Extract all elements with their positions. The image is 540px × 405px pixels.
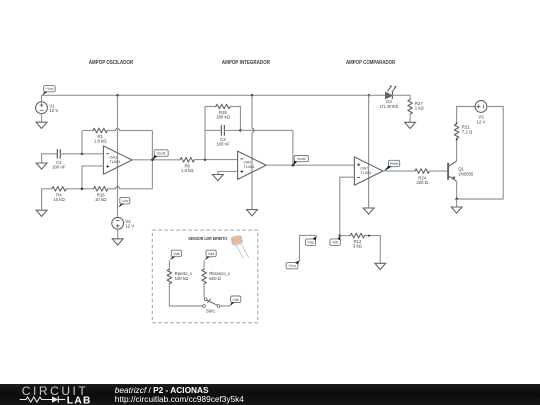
- node Vdb junction: [339, 234, 342, 237]
- voltage source V2: [112, 217, 124, 229]
- svg-text:10 kΩ: 10 kΩ: [95, 197, 107, 202]
- resistor R6 1.8 k: [180, 158, 194, 163]
- svg-text:SW1: SW1: [206, 309, 216, 314]
- resistor R1 1.8 k: [93, 128, 107, 133]
- flag Vout2: [294, 156, 308, 162]
- wire integrator feedback left vertical: [204, 107, 206, 160]
- wire R1 top left segment: [82, 130, 93, 132]
- svg-text:180 kΩ: 180 kΩ: [216, 115, 231, 120]
- wire R16 right with hop over supply: [108, 188, 116, 190]
- op-amp OA1 TL081: [103, 146, 132, 174]
- svg-text:AMPOP INTEGRADOR: AMPOP INTEGRADOR: [222, 60, 271, 66]
- resistor Rpreto_x 100 k: [167, 269, 172, 283]
- op-amp OA7 TL081: [354, 157, 383, 185]
- ground at C2: [36, 163, 47, 169]
- svg-text:TL081: TL081: [109, 159, 120, 164]
- svg-text:1.8 kΩ: 1.8 kΩ: [181, 168, 194, 173]
- wire R21 top to V3: [457, 107, 476, 123]
- svg-text:100 nF: 100 nF: [216, 142, 230, 147]
- wire switch to Vdb flag: [220, 305, 230, 307]
- wire +Vcc to Vda tie: [300, 235, 317, 260]
- svg-text:12 V: 12 V: [477, 119, 486, 124]
- svg-text:LAB: LAB: [67, 395, 92, 405]
- ground at R4: [36, 210, 47, 216]
- wire OA7 inverting input: [340, 177, 355, 235]
- svg-text:3 kΩ: 3 kΩ: [353, 244, 363, 249]
- svg-text:100 kΩ: 100 kΩ: [175, 276, 190, 281]
- node rail-OA2 supply junction: [251, 94, 254, 97]
- logo resistor-diode squiggle: [20, 397, 52, 402]
- resistor R16 10 k: [94, 187, 108, 192]
- wire V1 to ground: [41, 114, 43, 123]
- svg-text:1.8 kΩ: 1.8 kΩ: [94, 139, 107, 144]
- svg-text:12 V: 12 V: [125, 224, 134, 229]
- svg-text:600 Ω: 600 Ω: [209, 276, 221, 281]
- resistor R27 1 k: [408, 100, 413, 114]
- svg-text:Vdb: Vdb: [232, 298, 238, 302]
- capacitor C2 100 nF: [57, 149, 60, 159]
- transistor Q1 2N3055: [447, 163, 449, 180]
- svg-text:1 kΩ: 1 kΩ: [415, 105, 425, 110]
- flag Vda left branch: [171, 250, 181, 257]
- flag +Vcc tie: [286, 263, 298, 269]
- svg-text:Vda: Vda: [307, 241, 313, 245]
- svg-text:Vdb: Vdb: [332, 241, 338, 245]
- node divider junction: [81, 188, 84, 191]
- svg-text:TL081: TL081: [360, 170, 371, 175]
- LDR photograph: [231, 235, 243, 246]
- wire Vda to Rbranco: [203, 260, 205, 269]
- ground at OA2 + input: [213, 175, 224, 181]
- ground under OA7: [363, 208, 374, 214]
- resistor R21 7.2 ohm: [454, 124, 459, 138]
- resistor R12 3 k: [350, 233, 364, 238]
- wire R26 left segment: [205, 106, 216, 108]
- op-amp OA2 TL081: [238, 151, 267, 179]
- node feedback right junction: [239, 129, 242, 132]
- svg-text:100 nF: 100 nF: [52, 165, 66, 170]
- svg-text:7.2 Ω: 7.2 Ω: [462, 129, 473, 134]
- ground under V1: [36, 122, 47, 128]
- ground under V2: [112, 239, 123, 245]
- wire R1 top right segment with hop over supply: [107, 130, 115, 132]
- svg-text:PWM: PWM: [390, 162, 399, 166]
- node integrator input junction: [204, 158, 207, 161]
- wire R27 to ground: [409, 114, 411, 122]
- wire OA1 noninverting input: [82, 166, 103, 189]
- capacitor C3 100 nF: [221, 125, 224, 136]
- LED D3 LTL-307EE: [385, 92, 392, 99]
- svg-text:LTL-307EE: LTL-307EE: [380, 104, 399, 109]
- wire feedback to output, hop over supply: [241, 129, 253, 131]
- ground under OA2: [247, 210, 258, 216]
- dashed sensor enclosure box: [152, 230, 257, 323]
- wire V1 to rail: [41, 95, 43, 102]
- wire R26 right segment: [230, 107, 240, 131]
- wire +Vcc top rail: [42, 94, 370, 96]
- svg-text:2N3055: 2N3055: [458, 171, 474, 176]
- svg-text:http://circuitlab.com/cc989cef: http://circuitlab.com/cc989cef3y5k4: [115, 394, 245, 404]
- svg-text:12 V: 12 V: [49, 108, 58, 113]
- ground under R12: [375, 263, 386, 269]
- svg-text:TL081: TL081: [244, 164, 255, 169]
- wire rail to LED: [369, 94, 385, 96]
- flag Vdb at comparator: [330, 239, 341, 246]
- svg-text:Vout2: Vout2: [297, 157, 306, 161]
- resistor R4 10 k: [52, 187, 66, 192]
- wire R1 left vertical: [81, 131, 83, 154]
- node R12 terminal: [368, 235, 370, 237]
- switch SW1: [204, 298, 207, 301]
- node rail-OA7 supply junction: [368, 94, 371, 97]
- wire OA2 positive supply with hop over feedback: [251, 95, 253, 128]
- node R21 bottom terminal: [456, 138, 458, 140]
- wire feedback down to Vout2: [292, 130, 294, 165]
- wire LED to R27: [392, 95, 410, 99]
- node R21 top terminal: [456, 122, 458, 124]
- wire Q1 collector to R21: [456, 139, 458, 161]
- flag PWM: [389, 160, 400, 166]
- svg-text:+Vcc: +Vcc: [288, 264, 296, 268]
- node emitter/ground junction: [455, 198, 458, 201]
- wire V2 to ground: [117, 229, 119, 239]
- wire R4 to R16: [66, 188, 93, 190]
- svg-text:Vout1: Vout1: [157, 152, 166, 156]
- wire OA2 output: [266, 164, 354, 166]
- ground under Q1 emitter: [451, 207, 462, 213]
- wire OA2 noninverting input to ground: [218, 171, 238, 174]
- svg-text:-Vcc: -Vcc: [121, 199, 128, 203]
- resistor R24 220 ohm: [415, 169, 429, 174]
- svg-text:AMPOP COMPARADOR: AMPOP COMPARADOR: [346, 60, 396, 66]
- wire OA7 supply vertical: [368, 95, 370, 208]
- svg-text:+Vcc: +Vcc: [45, 87, 53, 91]
- voltage source V3: [475, 101, 487, 113]
- flag Vda tie: [305, 239, 315, 246]
- wire OA7 output to R24: [383, 170, 415, 172]
- svg-text:10 kΩ: 10 kΩ: [53, 197, 65, 202]
- wire Q1 emitter down: [456, 181, 458, 199]
- wire C3 right segment: [224, 129, 240, 131]
- resistor Rbranco_x 600 ohm: [202, 269, 207, 283]
- flag Vda right branch: [206, 250, 216, 257]
- wire R6 to OA2: [194, 159, 237, 161]
- node Vout2: [292, 164, 295, 167]
- wire C3 left segment: [205, 129, 221, 131]
- LDR leads: [236, 244, 249, 258]
- flag +Vcc (V1): [44, 86, 56, 92]
- wire C2 to OA1 inverting input: [60, 153, 103, 155]
- wire OA1 output: [132, 159, 180, 161]
- wire V3 right loop down: [457, 107, 504, 200]
- wire R24 to Q1 base: [429, 170, 448, 172]
- svg-text:Vda: Vda: [173, 252, 179, 256]
- wire C2 left to ground: [42, 154, 58, 163]
- svg-text:AMPOP OSCILADOR: AMPOP OSCILADOR: [89, 60, 134, 66]
- wire Vdb to R12: [340, 235, 350, 237]
- ground under R27: [405, 122, 416, 128]
- wire Vda to Rpreto: [168, 260, 170, 269]
- flag -Vcc: [120, 197, 130, 204]
- wire R4 left: [42, 189, 52, 210]
- wire R12 to ground corner: [365, 236, 381, 264]
- resistor R26 180 k: [216, 104, 230, 109]
- wire Rpreto to switch common: [169, 284, 202, 307]
- voltage source V1: [36, 102, 48, 114]
- node C2/R1 junction: [81, 153, 84, 156]
- svg-text:220 Ω: 220 Ω: [416, 180, 428, 185]
- flag Vdb sensor output: [231, 296, 241, 303]
- flag Vout1: [154, 150, 168, 157]
- svg-text:SENSOR LDR DIREITO: SENSOR LDR DIREITO: [188, 236, 227, 241]
- node Vout1: [151, 159, 154, 162]
- node rail-OA1 supply junction: [116, 94, 119, 97]
- wire Vout1 feedback vertical: [151, 131, 153, 189]
- wire OA1 supply vertical: [117, 95, 119, 217]
- wire to ground: [456, 199, 458, 207]
- svg-text:Vda: Vda: [208, 252, 214, 256]
- wire Rbranco to switch throw: [203, 284, 205, 298]
